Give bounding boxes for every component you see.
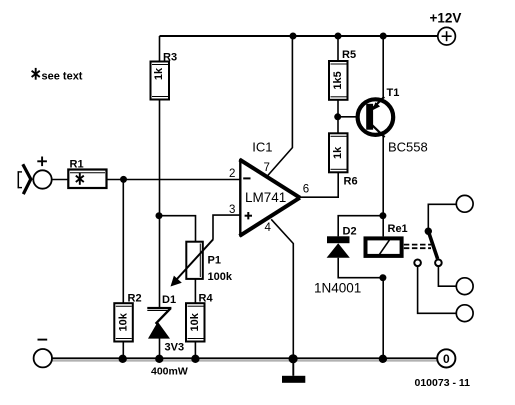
switch lever xyxy=(428,231,437,259)
resistor R4 xyxy=(186,292,213,341)
op-amp U1 LM741 xyxy=(229,140,309,237)
svg-text:1k5: 1k5 xyxy=(332,71,344,89)
node R1/R2/pin2 junction xyxy=(120,176,127,183)
svg-text:see text: see text xyxy=(42,70,83,82)
relay Re1 coil xyxy=(366,223,408,256)
terminal switch middle xyxy=(456,278,473,295)
zener diode D1 3V3 xyxy=(147,294,188,378)
svg-text:10k: 10k xyxy=(189,312,201,331)
node rail junction relay xyxy=(379,355,387,363)
wire bottom ground rail xyxy=(52,358,437,361)
svg-text:0: 0 xyxy=(443,352,450,366)
wire R1 to op-amp pin 2 xyxy=(107,179,241,181)
svg-text:010073 - 11: 010073 - 11 xyxy=(415,377,471,389)
node base junction R5/R6 xyxy=(334,113,341,120)
terminal input minus xyxy=(34,340,52,368)
svg-text:1N4001: 1N4001 xyxy=(314,281,361,296)
svg-text:100k: 100k xyxy=(208,271,233,283)
svg-text:6: 6 xyxy=(303,184,309,196)
wire relay bottom to ground rail xyxy=(382,278,384,359)
svg-text:4: 4 xyxy=(265,222,272,234)
svg-text:2: 2 xyxy=(229,168,235,180)
node top-rail junction pin7 xyxy=(290,33,297,40)
wire D1 to ground rail xyxy=(159,339,161,359)
switch contact NO xyxy=(435,260,442,267)
svg-text:P1: P1 xyxy=(208,255,221,267)
wire NO contact to middle terminal xyxy=(438,266,456,286)
node rail junction R4 xyxy=(191,355,199,363)
svg-text:IC1: IC1 xyxy=(252,140,272,155)
resistor R1 xyxy=(68,158,106,188)
wire NC contact to bottom terminal xyxy=(418,266,457,313)
terminal switch bottom xyxy=(456,305,473,322)
ground xyxy=(282,358,305,383)
wire rail to R3 xyxy=(159,36,161,62)
wire base node to T1 base xyxy=(338,116,366,118)
wire op-amp pin 4 to ground rail xyxy=(271,219,293,358)
svg-text:LM741: LM741 xyxy=(245,190,286,205)
wire T1 emitter to rail xyxy=(382,36,384,98)
svg-text:3V3: 3V3 xyxy=(165,342,185,354)
svg-text:+12V: +12V xyxy=(430,11,462,26)
node rail junction ground xyxy=(289,354,298,363)
terminal +12V xyxy=(430,11,462,46)
switch pivot xyxy=(425,228,432,235)
wire node A to P1 top xyxy=(159,216,196,242)
node rail junction R2 xyxy=(119,355,127,363)
terminal output 0 xyxy=(437,349,455,367)
resistor R2 xyxy=(114,292,141,341)
resistor R5 xyxy=(329,49,356,100)
svg-text:T1: T1 xyxy=(387,87,400,99)
svg-text:1k: 1k xyxy=(332,146,344,159)
wire rail to R5 xyxy=(337,36,339,61)
resistor R3 xyxy=(151,51,178,99)
svg-text:D1: D1 xyxy=(162,294,176,306)
svg-text:400mW: 400mW xyxy=(151,366,188,378)
switch contact NC xyxy=(414,260,421,267)
wire op-amp output pin 6 to R6 xyxy=(300,173,338,198)
wire switch common to top contact circle xyxy=(428,204,456,231)
node A junction (R3/D1/P1 feed) xyxy=(156,212,163,219)
wire collector node to D2 xyxy=(338,216,383,237)
svg-text:7: 7 xyxy=(264,162,270,174)
svg-text:D2: D2 xyxy=(343,226,357,238)
wire op-amp pin 7 to rail xyxy=(268,36,293,175)
diode D2 1N4001 xyxy=(314,226,361,296)
terminal input plus xyxy=(33,157,51,189)
wire op-amp pin 3 xyxy=(213,215,241,240)
node top-rail junction T1 emitter xyxy=(380,33,387,40)
microphone input symbol xyxy=(18,164,31,194)
potentiometer P1 xyxy=(171,240,233,287)
svg-text:Re1: Re1 xyxy=(388,223,408,235)
wire P1 bottom to R4 xyxy=(194,279,196,303)
svg-text:BC558: BC558 xyxy=(388,140,428,155)
svg-text:10k: 10k xyxy=(118,312,130,331)
mechanical linkage dashed xyxy=(404,245,431,249)
svg-text:R5: R5 xyxy=(342,49,356,61)
wire R3 bottom to node A (crosses pin2 wire, no junction) xyxy=(159,100,161,216)
svg-text:1k: 1k xyxy=(153,67,165,80)
note asterisk see text xyxy=(32,68,83,82)
svg-text:3: 3 xyxy=(229,204,235,216)
node relay bottom junction xyxy=(379,274,386,281)
note drawing number xyxy=(415,377,471,389)
resistor R6 xyxy=(329,133,358,187)
wire D2 to relay bottom node xyxy=(338,258,383,278)
node rail junction D1 xyxy=(155,355,163,363)
svg-text:R4: R4 xyxy=(199,292,214,304)
wire input to R1 xyxy=(52,179,69,181)
wire junction down to R2 xyxy=(122,179,124,303)
node top-rail junction R5 xyxy=(335,33,342,40)
wire R2 to ground rail xyxy=(122,342,124,359)
wire R5 to R6 xyxy=(337,100,339,134)
wire node A down to D1 xyxy=(159,216,161,308)
svg-text:R3: R3 xyxy=(163,51,177,63)
wire T1 collector down xyxy=(382,137,384,237)
terminal switch top xyxy=(456,195,473,212)
wire R4 to ground rail xyxy=(194,342,196,359)
svg-text:R1: R1 xyxy=(70,158,84,170)
transistor Q1 T1 BC558 xyxy=(358,87,428,155)
svg-text:R2: R2 xyxy=(128,292,142,304)
svg-text:R6: R6 xyxy=(344,176,358,188)
wire top +12V rail xyxy=(160,35,438,37)
node collector/relay/D2 junction xyxy=(379,212,386,219)
